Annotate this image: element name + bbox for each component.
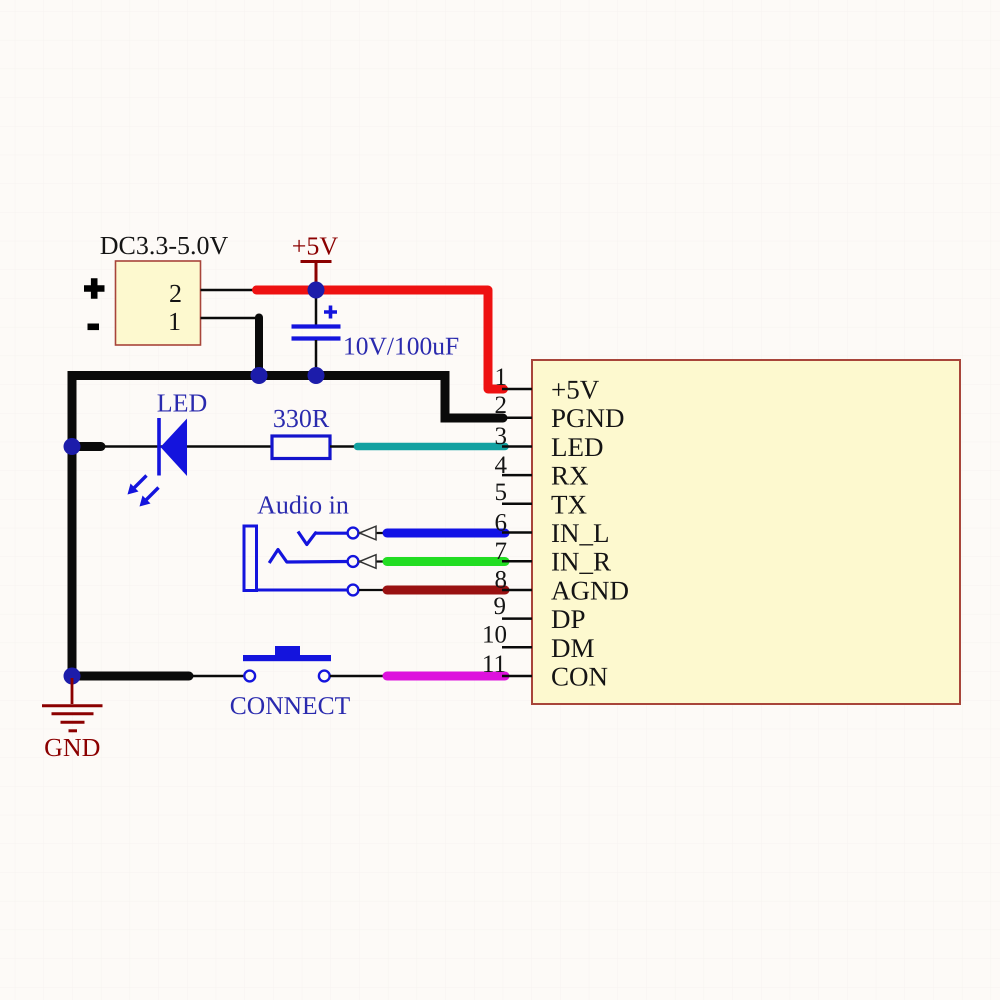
power symbol +5V (292, 232, 339, 291)
wire button left (thin) (187, 675, 245, 678)
svg-text:RX: RX (551, 461, 589, 491)
wire ring to IN_R (thin) (359, 560, 392, 562)
wire IN_R net (green thick) (387, 557, 505, 566)
node open pad sleeve (348, 585, 359, 596)
pushbutton S1 CONNECT (243, 646, 331, 681)
svg-text:10: 10 (482, 622, 507, 649)
svg-text:9: 9 (494, 593, 507, 620)
node open pad ring (348, 556, 359, 567)
wire AGND net (dark red thick) (387, 586, 505, 595)
svg-text:TX: TX (551, 489, 587, 519)
svg-text:3: 3 (495, 423, 508, 450)
arrow port IN_L (360, 526, 377, 540)
ground symbol GND (42, 678, 103, 731)
svg-text:+5V: +5V (292, 232, 339, 261)
wire button right (thin) (330, 675, 392, 678)
label minus polarity (88, 323, 100, 330)
module U1 sheet body (532, 360, 960, 704)
svg-text:CONNECT: CONNECT (230, 691, 351, 720)
svg-text:AGND: AGND (551, 576, 629, 606)
svg-text:Audio in: Audio in (257, 491, 349, 520)
svg-text:2: 2 (169, 279, 182, 308)
svg-text:+5V: +5V (551, 375, 600, 405)
wire sleeve to AGND (thin) (359, 589, 392, 591)
svg-text:10V/100uF: 10V/100uF (343, 332, 459, 361)
svg-text:IN_R: IN_R (551, 547, 611, 577)
wire CON net (magenta thick) (387, 672, 505, 681)
svg-text:1: 1 (168, 307, 181, 336)
svg-text:6: 6 (495, 510, 508, 537)
svg-text:1: 1 (495, 364, 508, 391)
node junction PGND at LED row (64, 438, 81, 455)
svg-text:DM: DM (551, 633, 595, 663)
svg-text:DC3.3-5.0V: DC3.3-5.0V (100, 231, 229, 260)
wire PGND vertical from J1 pin1 (thick) (255, 318, 263, 376)
svg-text:7: 7 (495, 538, 508, 565)
wire LED net (teal thick) (358, 443, 506, 451)
svg-text:2: 2 (495, 392, 508, 419)
audio jack tip contact (298, 532, 348, 545)
node junction PGND at cap (308, 367, 325, 384)
audio jack ring contact (269, 550, 348, 564)
svg-text:PGND: PGND (551, 403, 625, 433)
svg-text:LED: LED (551, 432, 603, 462)
wire LED row left (thin) (98, 445, 272, 448)
wire J1 pin1 to PGND net (thin) (201, 317, 260, 320)
node junction PGND at button row (64, 668, 81, 685)
svg-text:330R: 330R (273, 404, 330, 433)
label plus polarity (84, 278, 105, 298)
svg-text:LED: LED (157, 389, 208, 418)
arrow port IN_R (360, 555, 377, 569)
node junction PGND at J1 drop (251, 367, 268, 384)
wire J1 pin2 to +5V net (thin) (201, 289, 261, 292)
svg-text:8: 8 (495, 567, 508, 594)
wire tip to IN_L (thin) (359, 532, 392, 534)
svg-text:IN_L: IN_L (551, 518, 609, 548)
svg-text:5: 5 (495, 479, 508, 506)
wire +5V net (red thick) (257, 290, 504, 389)
node open pad tip (348, 528, 359, 539)
svg-text:CON: CON (551, 662, 608, 692)
capacitor C1 lead top (315, 292, 318, 326)
svg-text:GND: GND (44, 733, 100, 762)
wire PGND stub to button (thick) (72, 672, 189, 681)
capacitor C1 (292, 306, 341, 339)
svg-text:11: 11 (482, 651, 506, 678)
svg-text:4: 4 (495, 452, 508, 479)
wire IN_L net (blue thick) (387, 529, 505, 538)
audio jack J2 body (244, 526, 348, 591)
connector J1 DC3.3-5.0V body (116, 261, 201, 345)
wire PGND main bus (thick) (72, 376, 503, 677)
LED D1 (128, 418, 188, 507)
wire resistor to LED net (thin) (330, 445, 362, 448)
resistor R1 (272, 436, 330, 459)
svg-text:DP: DP (551, 604, 586, 634)
module U1 pin stubs (502, 389, 532, 676)
node junction on +5V at cap (308, 282, 325, 299)
wire PGND stub to LED (thick) (72, 442, 101, 451)
capacitor C1 lead bottom (315, 340, 318, 375)
